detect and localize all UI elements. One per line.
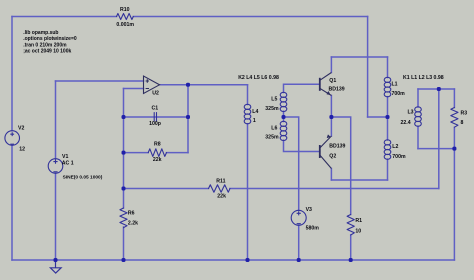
wire R11 row left of resistor [124, 188, 209, 190]
svg-text:U2: U2 [152, 91, 159, 97]
svg-text:2.2k: 2.2k [128, 220, 138, 226]
inductor L4 [244, 104, 251, 109]
node C1 left junction [122, 115, 126, 119]
wire feedback vertical [123, 89, 125, 209]
wire tank bottom down to ground rail [453, 149, 455, 260]
svg-text:0.001m: 0.001m [116, 22, 134, 28]
wire L3 top lead [417, 89, 419, 107]
svg-text:325m: 325m [265, 106, 279, 112]
resistor R1 [347, 215, 354, 236]
wire op-amp output [160, 84, 248, 86]
svg-text:K2 L4 L5 L6 0.98: K2 L4 L5 L6 0.98 [238, 75, 279, 81]
node op-amp output junction [186, 83, 190, 87]
op-amp U2 [144, 76, 160, 94]
inductor L2 [384, 140, 391, 145]
svg-text:8: 8 [461, 120, 464, 126]
node R11 left junction [122, 187, 126, 191]
svg-text:100p: 100p [149, 121, 161, 127]
wire R1 bottom lead [350, 235, 352, 260]
svg-text:;ac oct 2049 10 100k: ;ac oct 2049 10 100k [23, 49, 71, 55]
inductor L3 [415, 107, 422, 112]
svg-text:R6: R6 [128, 211, 135, 217]
wire V2 bottom lead [11, 145, 13, 260]
svg-text:L3: L3 [408, 110, 414, 116]
node V3 ground junction [297, 258, 301, 262]
wire L2 top lead [387, 117, 389, 140]
wire L4 top lead [247, 85, 249, 105]
wire L1 top lead [387, 57, 389, 78]
svg-text:C1: C1 [152, 106, 159, 112]
svg-text:L6: L6 [271, 126, 277, 132]
wire L4 bottom lead [247, 124, 249, 260]
wire supply to transformer center tap [368, 116, 388, 118]
wire L5 top lead to Q1 base row [284, 84, 320, 92]
voltage source V1 [48, 159, 63, 174]
resistor R8 [148, 149, 166, 157]
node tank bottom junction [452, 147, 456, 151]
svg-text:.options plotwinsize=0: .options plotwinsize=0 [23, 36, 77, 42]
node tank top junction [437, 87, 441, 91]
wire Q1 emitter down to node [330, 96, 332, 118]
node V1 ground junction [54, 258, 58, 262]
svg-text:R11: R11 [216, 179, 225, 185]
wire Q2 collector rail to L2 bottom [331, 179, 387, 181]
svg-text:SINE(0 0.05 1000): SINE(0 0.05 1000) [63, 174, 103, 180]
svg-text:22k: 22k [217, 193, 226, 199]
wire top rail left of R10 [12, 16, 117, 18]
svg-text:10: 10 [355, 229, 361, 235]
wire Q2 collector down [330, 169, 332, 181]
transistor Q1 [320, 73, 332, 96]
wire V2 top lead [11, 17, 13, 131]
wire R11 row right of resistor [230, 188, 439, 190]
inductor L6 [280, 121, 287, 126]
wire output node down to C1/R8 [187, 85, 189, 153]
svg-text:1: 1 [253, 118, 256, 124]
svg-text:580m: 580m [306, 226, 320, 232]
resistor R10 [117, 14, 134, 20]
svg-text:V1: V1 [62, 154, 68, 160]
svg-text:325m: 325m [265, 134, 279, 140]
svg-text:R10: R10 [120, 7, 130, 13]
wire V1 bottom lead [55, 173, 57, 260]
svg-text:.tran 0 210m 200m: .tran 0 210m 200m [23, 42, 67, 48]
svg-text:L4: L4 [252, 109, 258, 115]
wire bottom ground rail [12, 259, 454, 261]
wire Q2 emitter up to node [330, 117, 332, 136]
node L5-L6 center tap junction [282, 115, 286, 119]
wire R6 bottom lead [123, 227, 125, 260]
svg-text:R1: R1 [355, 218, 362, 224]
wire V1 to op-amp plus input [56, 80, 144, 82]
svg-text:L1: L1 [392, 81, 398, 87]
wire R3 top lead [453, 89, 455, 108]
wire tank bottom [418, 148, 454, 150]
node L4 ground junction [246, 258, 250, 262]
wire L2 bottom lead [387, 159, 389, 180]
svg-text:R8: R8 [154, 142, 161, 148]
wire tank top [418, 88, 454, 90]
svg-text:12: 12 [19, 146, 25, 152]
svg-text:V3: V3 [306, 207, 312, 213]
wire V3 bottom lead [298, 225, 300, 260]
node R6 ground junction [122, 258, 126, 262]
wire supply vertical from top rail [367, 17, 369, 118]
svg-text:.lib opamp.sub: .lib opamp.sub [23, 30, 58, 36]
svg-text:22k: 22k [153, 157, 162, 163]
svg-text:Q2: Q2 [329, 154, 336, 160]
capacitor C1 [154, 113, 156, 122]
wire L1 bottom lead [387, 97, 389, 117]
wire L3 bottom lead [417, 126, 419, 148]
ground [50, 260, 61, 273]
transistor Q2 [320, 135, 332, 169]
svg-text:22.4: 22.4 [401, 120, 411, 126]
wire top rail right of R10 [133, 16, 367, 18]
inductor L5 [280, 92, 287, 97]
wire collector rail to L1 top [331, 56, 387, 58]
node R8 left junction [122, 151, 126, 155]
node emitter junction [329, 115, 333, 119]
voltage source V2 [5, 131, 20, 146]
wire feedback from tank top down [438, 89, 440, 189]
wire C1 row [124, 116, 189, 118]
node L1-L2 center tap junction [386, 115, 390, 119]
svg-text:K1 L1 L2 L3 0.98: K1 L1 L2 L3 0.98 [403, 75, 444, 81]
wire R3 bottom lead [453, 127, 455, 148]
wire L5-L6 center tap [283, 111, 285, 121]
wire emitter node to R1 branch [331, 117, 350, 215]
resistor R6 [120, 208, 127, 228]
svg-text:V2: V2 [18, 126, 24, 132]
svg-text:Q1: Q1 [329, 78, 336, 84]
wire L6 bottom lead to Q2 base row [284, 140, 320, 151]
spice directives [23, 30, 77, 55]
resistor R11 [209, 185, 231, 192]
wire R8 right lead [167, 152, 189, 154]
wire V1 top lead [55, 81, 57, 159]
voltage source V3 [291, 210, 306, 225]
svg-text:BD139: BD139 [329, 87, 345, 93]
wire center tap to V3 branch [284, 117, 299, 210]
resistor R3 [451, 108, 458, 128]
svg-text:L5: L5 [271, 97, 277, 103]
svg-text:BD139: BD139 [329, 144, 345, 150]
svg-text:700m: 700m [392, 91, 406, 97]
svg-text:R3: R3 [461, 111, 468, 117]
wire op-amp minus input [124, 88, 144, 90]
svg-text:700m: 700m [392, 154, 406, 160]
inductor L1 [384, 77, 391, 82]
svg-text:AC 1: AC 1 [62, 161, 74, 167]
wire Q1 collector to top rail [330, 57, 332, 73]
svg-text:L2: L2 [392, 144, 398, 150]
node C1 right junction [186, 115, 190, 119]
wire R8 left lead [124, 152, 149, 154]
node R1 ground junction [349, 258, 353, 262]
